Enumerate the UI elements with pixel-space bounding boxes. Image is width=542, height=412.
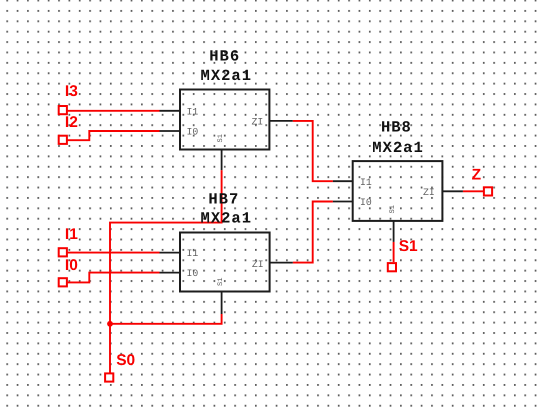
port S1 bbox=[388, 263, 396, 271]
junction S0 bbox=[107, 321, 113, 327]
svg-text:ZI: ZI bbox=[252, 117, 264, 128]
svg-text:S1: S1 bbox=[389, 205, 397, 213]
svg-text:HB7: HB7 bbox=[208, 190, 239, 208]
wire net HB7.ZI to HB8.I0 bbox=[293, 202, 333, 263]
svg-text:I0: I0 bbox=[187, 127, 199, 138]
svg-text:HB6: HB6 bbox=[209, 48, 240, 66]
svg-text:S1: S1 bbox=[399, 238, 418, 255]
wire net I3: port I3 to HB6 pin I1 bbox=[68, 110, 160, 112]
svg-text:ZI: ZI bbox=[252, 259, 264, 270]
svg-text:MX2a1: MX2a1 bbox=[201, 67, 253, 85]
wire net Z: HB8.ZI stub to port Z bbox=[463, 190, 484, 192]
svg-text:S1: S1 bbox=[217, 134, 225, 142]
svg-text:I0: I0 bbox=[360, 197, 372, 208]
svg-text:S0: S0 bbox=[116, 352, 135, 369]
wire net I1: port I1 to HB7 pin I1 bbox=[68, 252, 160, 254]
svg-text:HB8: HB8 bbox=[381, 119, 412, 137]
svg-text:I0: I0 bbox=[187, 268, 199, 279]
svg-text:I1: I1 bbox=[65, 226, 78, 243]
svg-text:I1: I1 bbox=[360, 177, 372, 188]
svg-text:I3: I3 bbox=[65, 83, 78, 100]
svg-text:ZI: ZI bbox=[423, 187, 435, 198]
component HB6 (MX2a1 mux) bbox=[160, 90, 293, 171]
port I0 bbox=[59, 278, 67, 286]
wire net S0 branch: HB7.S down and left to junction bbox=[110, 314, 222, 324]
wire net HB6.ZI to HB8.I1 bbox=[293, 121, 333, 181]
svg-text:I0: I0 bbox=[65, 257, 78, 274]
component HB7 (MX2a1 mux) bbox=[160, 233, 293, 315]
wire net I0: port I0 to HB7 pin I0 (jog) bbox=[68, 273, 160, 283]
wire net S1: HB8.S stub to port S1 bbox=[393, 242, 395, 262]
svg-text:S1: S1 bbox=[217, 278, 225, 286]
svg-text:MX2a1: MX2a1 bbox=[372, 139, 424, 157]
svg-text:MX2a1: MX2a1 bbox=[201, 210, 253, 228]
port I3 bbox=[59, 106, 67, 114]
svg-text:I2: I2 bbox=[65, 114, 78, 131]
svg-text:I1: I1 bbox=[187, 248, 199, 259]
svg-text:Z: Z bbox=[472, 167, 482, 184]
port Z bbox=[484, 187, 492, 195]
svg-text:I1: I1 bbox=[187, 106, 199, 117]
wire net S0: HB6.S down, left, down to port S0 bbox=[110, 170, 222, 372]
port I2 bbox=[59, 136, 67, 144]
port S0 bbox=[105, 373, 113, 381]
wire net I2: port I2 to HB6 pin I0 (jog) bbox=[68, 131, 160, 140]
component HB8 (MX2a1 mux) bbox=[333, 161, 463, 242]
port I1 bbox=[59, 248, 67, 256]
